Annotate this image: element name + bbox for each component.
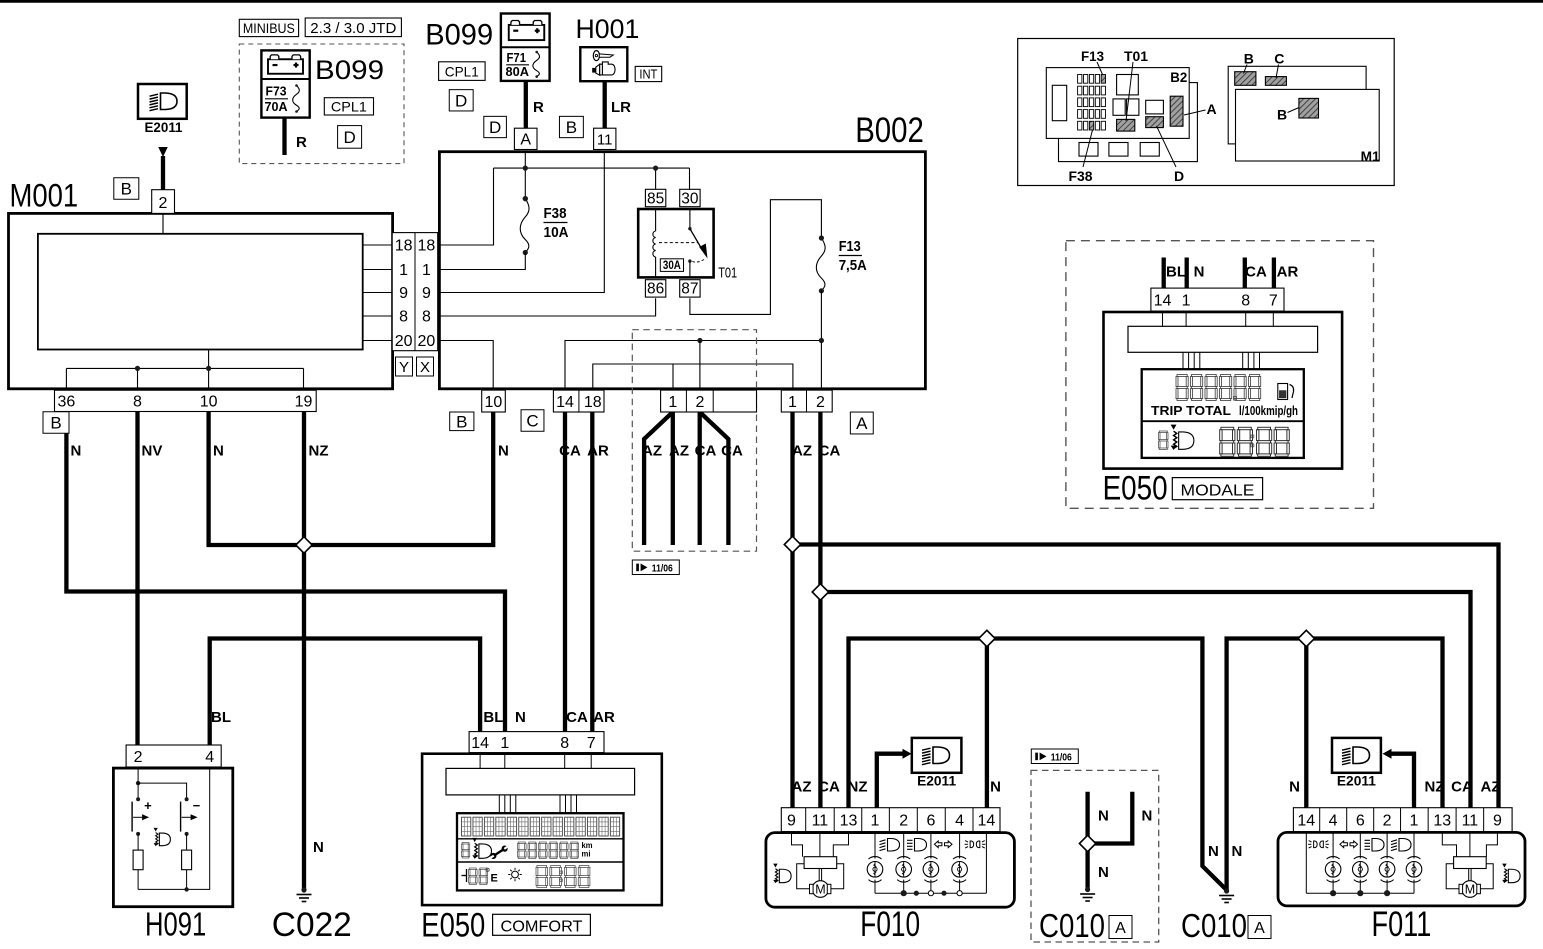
svg-text:10A: 10A (544, 225, 569, 241)
svg-text:1: 1 (668, 394, 677, 411)
svg-text:N: N (313, 839, 324, 856)
svg-text:F38: F38 (544, 206, 567, 222)
svg-text:2: 2 (1383, 812, 1392, 829)
svg-text:9: 9 (787, 812, 796, 829)
svg-text:D: D (455, 91, 467, 110)
svg-text:MINIBUS: MINIBUS (243, 21, 295, 36)
svg-text:BL: BL (483, 709, 503, 726)
svg-text:9: 9 (422, 285, 431, 302)
svg-text:C022: C022 (272, 906, 352, 944)
svg-text:2: 2 (695, 394, 704, 411)
svg-text:AZ: AZ (1481, 779, 1501, 796)
svg-text:N: N (1098, 808, 1109, 825)
svg-text:mi: mi (582, 850, 591, 859)
svg-text:6: 6 (926, 812, 935, 829)
svg-text:N: N (515, 709, 526, 726)
svg-text:NZ: NZ (848, 779, 868, 796)
svg-text:B: B (50, 414, 61, 433)
svg-text:14: 14 (978, 812, 996, 829)
svg-text:70A: 70A (265, 99, 289, 114)
svg-text:+: + (144, 798, 152, 813)
svg-text:INT: INT (639, 67, 657, 82)
svg-text:B: B (121, 180, 132, 199)
svg-text:B: B (566, 118, 577, 137)
svg-text:NZ: NZ (309, 443, 329, 460)
svg-text:X: X (420, 359, 430, 376)
svg-text:BL: BL (1166, 264, 1186, 281)
svg-text:F38: F38 (1069, 168, 1093, 184)
svg-text:F011: F011 (1372, 905, 1432, 944)
svg-text:F71: F71 (507, 50, 527, 65)
svg-text:E2011: E2011 (1337, 773, 1376, 789)
svg-text:4: 4 (1329, 812, 1338, 829)
svg-text:N: N (213, 443, 224, 460)
svg-text:E050: E050 (421, 906, 485, 944)
svg-text:11: 11 (597, 132, 613, 149)
svg-text:CA: CA (819, 443, 841, 460)
svg-text:D: D (1174, 168, 1184, 184)
svg-text:H091: H091 (145, 906, 206, 943)
svg-text:T01: T01 (718, 264, 737, 281)
svg-text:LR: LR (611, 99, 631, 116)
svg-text:AZ: AZ (669, 443, 689, 460)
svg-text:AZ: AZ (792, 443, 812, 460)
svg-text:CPL1: CPL1 (445, 64, 479, 80)
svg-text:C010: C010 (1039, 907, 1105, 944)
svg-text:4: 4 (205, 749, 214, 766)
svg-text:10: 10 (200, 394, 218, 411)
svg-text:14: 14 (1154, 292, 1172, 309)
svg-text:CA: CA (818, 779, 840, 796)
svg-text:B2: B2 (1170, 70, 1187, 85)
svg-text:CA: CA (1451, 779, 1473, 796)
svg-text:1: 1 (871, 812, 880, 829)
svg-text:18: 18 (395, 238, 413, 255)
svg-text:4: 4 (955, 812, 964, 829)
svg-text:TRIP TOTAL: TRIP TOTAL (1151, 403, 1231, 418)
svg-text:H001: H001 (576, 14, 640, 44)
svg-text:C010: C010 (1181, 907, 1247, 944)
svg-text:N: N (1289, 779, 1300, 796)
svg-text:10: 10 (485, 394, 503, 411)
svg-text:20: 20 (418, 333, 436, 350)
svg-text:F13: F13 (1081, 48, 1104, 64)
svg-text:11/06: 11/06 (1051, 751, 1072, 763)
svg-text:85: 85 (647, 190, 664, 207)
svg-text:l/100kmip/gh: l/100kmip/gh (1239, 403, 1298, 418)
svg-text:1: 1 (1410, 812, 1419, 829)
svg-text:CA: CA (566, 709, 588, 726)
svg-text:R: R (533, 99, 544, 116)
svg-text:1: 1 (500, 735, 509, 752)
svg-text:1: 1 (422, 262, 431, 279)
svg-text:B099: B099 (425, 19, 493, 52)
svg-text:14: 14 (1297, 812, 1315, 829)
svg-text:13: 13 (840, 812, 858, 829)
svg-text:36: 36 (58, 394, 76, 411)
svg-text:E050: E050 (1103, 470, 1168, 508)
svg-text:E2011: E2011 (145, 119, 183, 135)
svg-text:N: N (498, 443, 509, 460)
svg-text:A: A (1206, 101, 1216, 117)
svg-text:18: 18 (584, 394, 602, 411)
svg-text:11: 11 (1462, 812, 1479, 829)
svg-text:2: 2 (159, 195, 168, 212)
svg-text:CPL1: CPL1 (331, 99, 367, 115)
svg-text:8: 8 (1241, 292, 1250, 309)
svg-text:2: 2 (816, 394, 825, 411)
svg-text:Y: Y (399, 359, 409, 376)
svg-text:1: 1 (788, 394, 797, 411)
svg-text:A: A (1254, 920, 1265, 937)
svg-text:1: 1 (399, 262, 408, 279)
svg-text:M: M (815, 883, 825, 897)
svg-text:B: B (456, 412, 467, 431)
svg-text:BL: BL (211, 709, 231, 726)
svg-text:A: A (520, 132, 531, 149)
svg-text:14: 14 (471, 735, 489, 752)
svg-text:N: N (1208, 843, 1219, 860)
svg-text:14: 14 (556, 394, 574, 411)
svg-text:2: 2 (899, 812, 908, 829)
svg-text:T01: T01 (1124, 48, 1148, 64)
svg-text:F13: F13 (839, 239, 861, 255)
svg-text:C: C (526, 412, 538, 431)
svg-text:CA: CA (695, 443, 717, 460)
svg-text:8: 8 (399, 309, 408, 326)
svg-text:13: 13 (1433, 812, 1451, 829)
svg-text:AZ: AZ (642, 443, 662, 460)
svg-text:AR: AR (1277, 264, 1299, 281)
svg-text:M1: M1 (1361, 149, 1380, 164)
svg-text:N: N (1194, 264, 1205, 281)
svg-text:N: N (1098, 864, 1109, 881)
svg-text:86: 86 (647, 281, 664, 298)
svg-text:E2011: E2011 (917, 773, 956, 789)
svg-text:N: N (1142, 808, 1153, 825)
svg-text:CA: CA (1245, 264, 1267, 281)
svg-text:N: N (1232, 843, 1243, 860)
svg-text:AZ: AZ (792, 779, 812, 796)
svg-text:8: 8 (560, 735, 569, 752)
svg-text:30: 30 (681, 190, 699, 207)
svg-text:B099: B099 (315, 55, 384, 85)
svg-text:2.3 / 3.0 JTD: 2.3 / 3.0 JTD (310, 20, 396, 37)
svg-text:1: 1 (1182, 292, 1191, 309)
svg-text:80A: 80A (506, 64, 530, 79)
svg-text:B002: B002 (855, 111, 924, 150)
svg-text:7: 7 (587, 735, 596, 752)
svg-text:8: 8 (133, 394, 142, 411)
svg-text:D: D (489, 118, 501, 137)
svg-text:N: N (71, 443, 82, 460)
svg-text:M001: M001 (10, 177, 79, 213)
svg-text:19: 19 (295, 394, 313, 411)
svg-text:7,5A: 7,5A (839, 258, 867, 274)
svg-text:30A: 30A (663, 260, 681, 272)
svg-text:A: A (856, 414, 868, 433)
svg-text:11/06: 11/06 (652, 562, 673, 574)
svg-text:B: B (1244, 51, 1254, 67)
svg-text:20: 20 (395, 333, 413, 350)
svg-text:9: 9 (1493, 812, 1502, 829)
svg-text:18: 18 (418, 238, 436, 255)
svg-text:AR: AR (593, 709, 615, 726)
svg-text:F73: F73 (266, 84, 287, 99)
svg-text:7: 7 (1269, 292, 1278, 309)
svg-text:2: 2 (134, 749, 143, 766)
svg-text:A: A (1115, 920, 1126, 937)
svg-text:87: 87 (681, 281, 698, 298)
svg-text:D: D (343, 128, 355, 147)
svg-text:N: N (990, 779, 1001, 796)
svg-text:9: 9 (399, 285, 408, 302)
svg-text:R: R (296, 134, 307, 151)
svg-text:M: M (1465, 883, 1475, 897)
svg-text:MODALE: MODALE (1181, 483, 1255, 500)
svg-text:8: 8 (422, 309, 431, 326)
svg-text:E: E (491, 873, 498, 885)
svg-text:6: 6 (1356, 812, 1365, 829)
svg-text:CA: CA (559, 443, 581, 460)
svg-text:C: C (1274, 51, 1284, 67)
svg-text:F010: F010 (860, 905, 920, 944)
svg-text:COMFORT: COMFORT (501, 919, 583, 936)
svg-text:NV: NV (142, 443, 163, 460)
svg-text:−: − (193, 798, 201, 813)
svg-text:NZ: NZ (1425, 779, 1445, 796)
svg-text:B: B (1277, 106, 1287, 122)
svg-text:AR: AR (587, 443, 609, 460)
svg-text:CA: CA (721, 443, 743, 460)
svg-text:11: 11 (812, 812, 829, 829)
